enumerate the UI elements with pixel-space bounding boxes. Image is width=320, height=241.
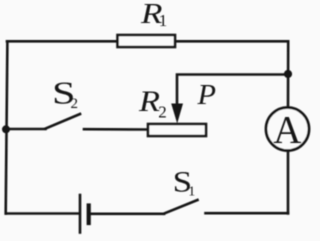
svg-text:1: 1: [159, 11, 168, 30]
battery cell short plate: [87, 206, 91, 224]
wire bottom-middle segment: [90, 213, 164, 216]
rheostat R2: [148, 124, 206, 136]
wire top-right segment: [175, 40, 288, 43]
wire bottom-left segment: [6, 212, 79, 215]
svg-text:2: 2: [71, 96, 79, 112]
svg-text:A: A: [273, 109, 301, 152]
wire right vertical lower: [287, 151, 290, 214]
svg-text:R: R: [138, 85, 160, 118]
svg-text:2: 2: [158, 103, 167, 122]
svg-text:1: 1: [188, 184, 195, 199]
ammeter A: [266, 108, 309, 151]
wire bottom-right segment: [206, 212, 289, 215]
wire left vertical: [6, 41, 8, 213]
resistor R1: [118, 35, 176, 47]
svg-text:P: P: [196, 80, 216, 111]
switch S2 blade: [46, 114, 81, 129]
switch S1 blade: [164, 200, 198, 214]
wire S2 pivot lead: [6, 128, 46, 131]
battery cell long plate: [79, 195, 82, 233]
slider arrow P: [171, 104, 183, 124]
node junction dot right: [284, 70, 292, 78]
wire S2 fixed lead: [84, 128, 149, 131]
wire slider branch: [177, 75, 288, 107]
wire right vertical upper: [287, 41, 290, 108]
wire top-left segment: [7, 40, 118, 43]
node junction dot left: [2, 125, 10, 133]
